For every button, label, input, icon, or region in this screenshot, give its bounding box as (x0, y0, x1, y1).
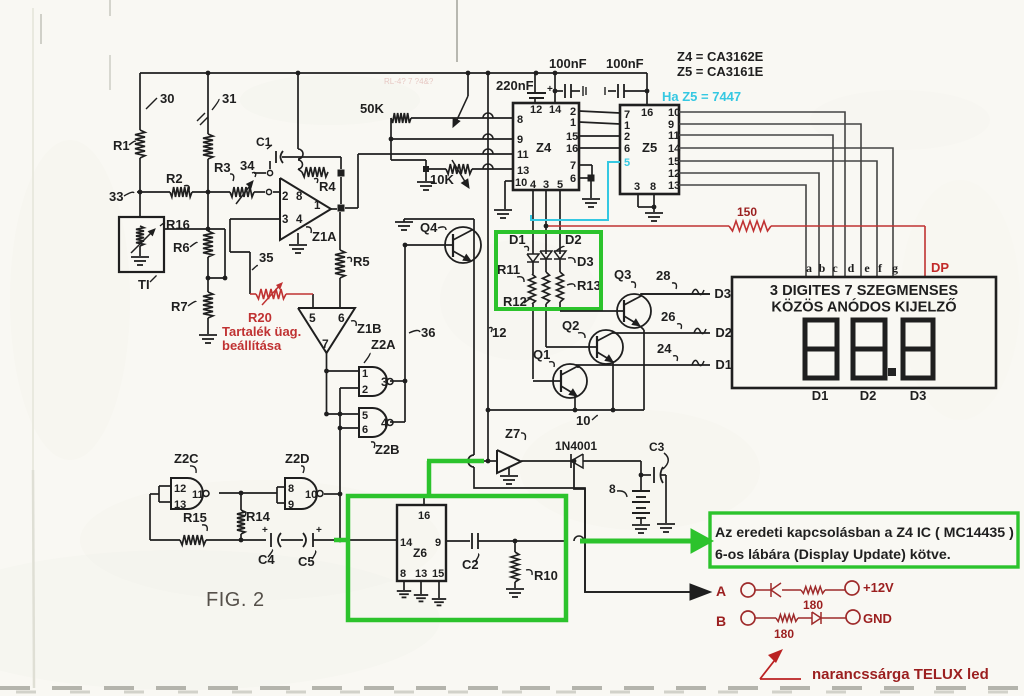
svg-text:10K: 10K (430, 172, 454, 187)
svg-text:6: 6 (362, 424, 368, 436)
svg-text:Z2D: Z2D (285, 451, 310, 466)
svg-text:9: 9 (288, 499, 294, 511)
svg-text:13: 13 (415, 568, 427, 580)
svg-text:6: 6 (570, 173, 576, 185)
svg-text:Z4: Z4 (536, 140, 552, 155)
svg-text:Q1: Q1 (533, 347, 550, 362)
svg-text:D3: D3 (910, 388, 927, 403)
svg-text:3 DIGITES 7 SZEGMENSES: 3 DIGITES 7 SZEGMENSES (770, 283, 958, 299)
svg-text:c: c (832, 261, 838, 275)
svg-text:C4: C4 (258, 552, 275, 567)
svg-text:R13: R13 (577, 278, 601, 293)
svg-text:R3: R3 (214, 160, 231, 175)
svg-text:220nF: 220nF (496, 78, 534, 93)
svg-text:R6: R6 (173, 240, 190, 255)
svg-text:8: 8 (296, 191, 303, 203)
svg-text:R5: R5 (353, 254, 370, 269)
svg-text:8: 8 (288, 483, 294, 495)
svg-text:3: 3 (381, 375, 388, 389)
svg-text:g: g (892, 261, 898, 275)
svg-text:31: 31 (222, 91, 236, 106)
svg-text:Z2B: Z2B (375, 442, 400, 457)
svg-text:14: 14 (549, 104, 562, 116)
svg-text:2: 2 (362, 384, 368, 396)
svg-text:3: 3 (634, 181, 640, 193)
svg-text:+: + (547, 84, 553, 95)
svg-text:100nF: 100nF (606, 56, 644, 71)
svg-text:12: 12 (174, 483, 186, 495)
svg-text:13: 13 (668, 180, 680, 192)
svg-text:12: 12 (492, 325, 506, 340)
svg-text:Q4: Q4 (420, 220, 438, 235)
svg-text:Z4 = CA3162E: Z4 = CA3162E (677, 49, 764, 64)
svg-text:D3: D3 (577, 254, 594, 269)
svg-text:A: A (716, 583, 726, 599)
svg-text:15: 15 (566, 131, 578, 143)
svg-text:D1: D1 (715, 357, 732, 372)
svg-text:10: 10 (305, 489, 317, 501)
svg-text:8: 8 (517, 114, 523, 126)
svg-text:D1: D1 (812, 388, 829, 403)
svg-text:33: 33 (109, 189, 123, 204)
svg-text:R11: R11 (497, 262, 520, 277)
svg-text:D2: D2 (565, 232, 582, 247)
svg-text:34: 34 (240, 158, 255, 173)
svg-text:100nF: 100nF (549, 56, 587, 71)
svg-text:Az eredeti kapcsolásban a Z4 I: Az eredeti kapcsolásban a Z4 IC ( MC1443… (715, 525, 1014, 541)
svg-text:9: 9 (435, 537, 441, 549)
svg-text:Q3: Q3 (614, 267, 631, 282)
svg-text:5: 5 (557, 179, 563, 191)
svg-text:D2: D2 (715, 325, 732, 340)
svg-text:30: 30 (160, 91, 174, 106)
svg-text:3: 3 (282, 214, 288, 226)
svg-text:14: 14 (668, 143, 681, 155)
svg-text:D2: D2 (860, 388, 877, 403)
svg-text:150: 150 (737, 205, 757, 219)
svg-text:11: 11 (192, 489, 204, 501)
svg-text:8: 8 (400, 568, 406, 580)
svg-text:GND: GND (863, 611, 892, 626)
svg-text:10: 10 (668, 107, 680, 119)
svg-text:R2: R2 (166, 171, 183, 186)
svg-text:7: 7 (322, 337, 329, 351)
svg-text:Z5 = CA3161E: Z5 = CA3161E (677, 64, 764, 79)
svg-text:12: 12 (530, 104, 542, 116)
svg-text:Z1B: Z1B (357, 321, 382, 336)
svg-text:4: 4 (530, 179, 537, 191)
svg-text:16: 16 (566, 143, 578, 155)
svg-text:D3: D3 (714, 286, 731, 301)
svg-text:R15: R15 (183, 510, 207, 525)
svg-text:6: 6 (338, 311, 345, 325)
svg-text:24: 24 (657, 341, 672, 356)
svg-text:10: 10 (576, 413, 590, 428)
svg-text:KÖZÖS ANÓDOS KIJELZŐ: KÖZÖS ANÓDOS KIJELZŐ (771, 298, 956, 316)
svg-text:8: 8 (609, 482, 616, 496)
svg-text:1: 1 (570, 117, 576, 129)
svg-text:TI: TI (138, 277, 150, 292)
svg-text:Z5: Z5 (642, 140, 657, 155)
svg-text:R4: R4 (319, 179, 336, 194)
svg-text:35: 35 (259, 250, 273, 265)
svg-text:Z2C: Z2C (174, 451, 199, 466)
svg-text:4: 4 (381, 416, 388, 430)
svg-text:+12V: +12V (863, 580, 894, 595)
svg-text:beállítása: beállítása (222, 338, 282, 353)
svg-text:26: 26 (661, 309, 675, 324)
svg-text:B: B (716, 613, 726, 629)
svg-text:Z2A: Z2A (371, 337, 396, 352)
svg-text:DP: DP (931, 260, 949, 275)
svg-text:6: 6 (624, 143, 630, 155)
svg-text:+: + (316, 525, 322, 536)
svg-text:narancssárga TELUX led: narancssárga TELUX led (812, 666, 989, 683)
svg-text:Z6: Z6 (413, 546, 427, 560)
svg-text:16: 16 (418, 510, 430, 522)
svg-text:5: 5 (624, 157, 630, 169)
svg-text:D1: D1 (509, 232, 526, 247)
svg-text:e: e (864, 261, 870, 275)
svg-text:2: 2 (624, 131, 630, 143)
svg-text:15: 15 (432, 568, 444, 580)
svg-text:13: 13 (517, 165, 529, 177)
svg-text:C3: C3 (649, 440, 665, 454)
svg-text:R7: R7 (171, 299, 188, 314)
svg-text:28: 28 (656, 268, 670, 283)
svg-text:15: 15 (668, 156, 680, 168)
svg-text:a: a (806, 261, 812, 275)
svg-text:50K: 50K (360, 101, 384, 116)
svg-text:Ha Z5 = 7447: Ha Z5 = 7447 (662, 89, 741, 104)
svg-text:FIG. 2: FIG. 2 (206, 589, 265, 611)
svg-text:7: 7 (570, 160, 576, 172)
svg-text:R14: R14 (246, 509, 271, 524)
svg-text:2: 2 (282, 191, 288, 203)
svg-text:1N4001: 1N4001 (555, 439, 597, 453)
svg-text:6-os lábára (Display Update) k: 6-os lábára (Display Update) kötve. (715, 547, 951, 563)
svg-text:14: 14 (400, 537, 413, 549)
svg-text:11: 11 (517, 149, 529, 161)
svg-text:R1: R1 (113, 138, 130, 153)
svg-text:d: d (848, 261, 855, 275)
svg-text:+: + (262, 525, 268, 536)
svg-text:R12: R12 (503, 294, 527, 309)
svg-text:5: 5 (309, 311, 316, 325)
svg-text:8: 8 (650, 181, 656, 193)
svg-text:4: 4 (296, 214, 303, 226)
svg-text:Z7: Z7 (505, 426, 520, 441)
svg-text:36: 36 (421, 325, 435, 340)
svg-text:10: 10 (515, 177, 527, 189)
svg-text:RL-4? 7 ?4&?: RL-4? 7 ?4&? (384, 77, 434, 86)
svg-text:1: 1 (362, 368, 368, 380)
svg-text:1: 1 (314, 200, 321, 212)
svg-text:9: 9 (517, 134, 523, 146)
svg-text:5: 5 (362, 410, 368, 422)
svg-text:Q2: Q2 (562, 318, 579, 333)
svg-text:180: 180 (774, 627, 794, 641)
svg-text:b: b (819, 261, 826, 275)
svg-text:C5: C5 (298, 554, 315, 569)
svg-text:R10: R10 (534, 568, 558, 583)
svg-text:12: 12 (668, 168, 680, 180)
svg-text:11: 11 (668, 130, 680, 142)
svg-text:3: 3 (543, 179, 549, 191)
svg-text:Z1A: Z1A (312, 229, 337, 244)
svg-text:Tartalék üag.: Tartalék üag. (222, 324, 301, 339)
svg-text:16: 16 (641, 107, 653, 119)
svg-text:180: 180 (803, 598, 823, 612)
svg-text:R20: R20 (248, 310, 272, 325)
